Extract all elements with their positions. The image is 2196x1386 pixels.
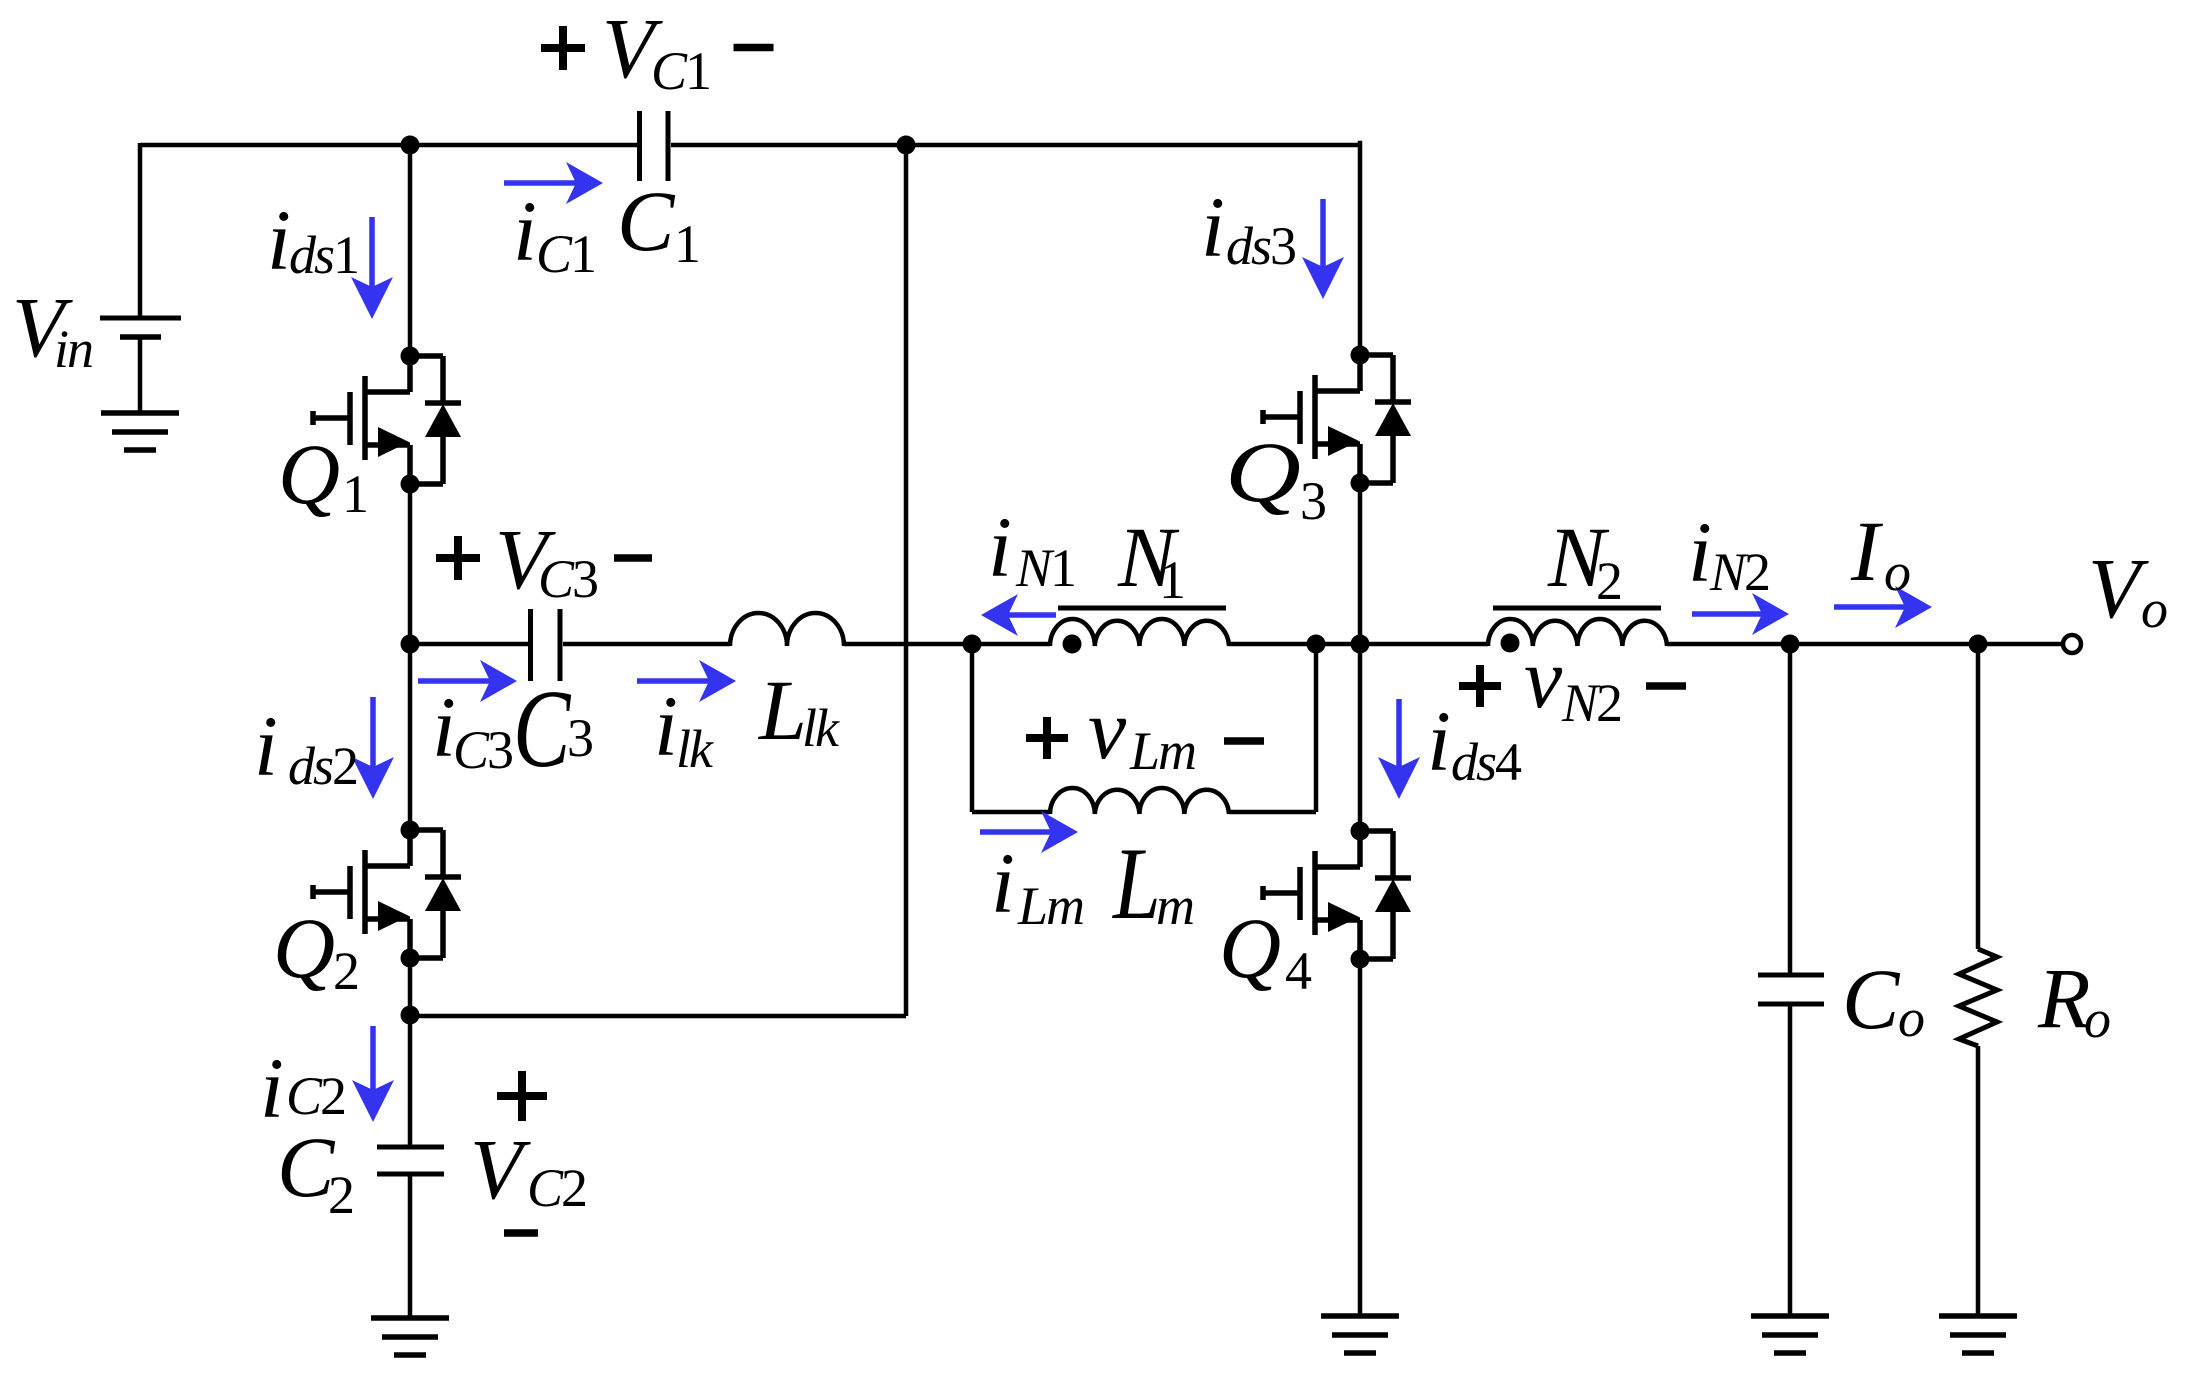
wire top rail left of C1 <box>140 143 637 148</box>
wire Lm bottom left <box>972 810 1050 815</box>
capacitor C3 <box>531 609 561 681</box>
label VC2 <box>470 1121 586 1218</box>
svg-text:o: o <box>2084 989 2110 1049</box>
wire N2 to output terminal <box>1667 642 2062 647</box>
current arrow iN2 <box>1692 593 1789 635</box>
wire bottom rail <box>410 1014 906 1019</box>
label iC3 <box>432 679 512 780</box>
label VC3 <box>495 511 597 609</box>
wire Lm right vertical <box>1314 644 1319 812</box>
current arrow iC1 <box>504 162 603 204</box>
node Q2 source rail <box>401 1006 420 1025</box>
svg-text:i: i <box>1688 504 1712 600</box>
label Q4 <box>1219 900 1312 1001</box>
label Co <box>1842 951 1924 1048</box>
label iN1 <box>988 499 1075 598</box>
node Ro top <box>1969 635 1988 654</box>
svg-text:C: C <box>617 173 676 269</box>
current arrow ids4 <box>1378 699 1420 799</box>
svg-text:m: m <box>1156 876 1193 936</box>
transformer core bar N1 <box>1058 606 1226 611</box>
label Q1 <box>278 426 367 524</box>
label minus of vN2 <box>1646 682 1686 690</box>
battery Vin <box>100 318 181 337</box>
label ilk <box>654 678 714 779</box>
svg-text:lk: lk <box>802 698 840 758</box>
wire C1 right leg <box>904 145 909 1016</box>
svg-text:C3: C3 <box>453 720 512 780</box>
svg-text:V: V <box>2088 540 2149 636</box>
svg-text:Lm: Lm <box>1129 721 1195 781</box>
svg-text:o: o <box>1898 988 1924 1048</box>
polarity dot N2 <box>1501 634 1520 653</box>
label Io <box>1850 503 1910 602</box>
resistor Ro <box>1959 949 1997 1046</box>
label C2 <box>277 1119 353 1225</box>
svg-text:2: 2 <box>333 941 358 1001</box>
svg-text:i: i <box>991 835 1015 931</box>
svg-text:ds4: ds4 <box>1451 732 1522 792</box>
polarity dot N1 <box>1063 635 1082 654</box>
wire N1 to right leg <box>1229 642 1360 647</box>
svg-text:i: i <box>1427 693 1451 789</box>
svg-text:C: C <box>513 666 572 790</box>
wire Co top <box>1788 644 1793 975</box>
terminal Vo <box>2063 635 2081 653</box>
node top right of C1 <box>897 136 916 155</box>
svg-text:4: 4 <box>1285 941 1312 1001</box>
current arrow ids1 <box>351 217 393 319</box>
label C3 <box>513 666 592 790</box>
label minus of VC2 <box>504 1229 538 1237</box>
svg-text:1: 1 <box>674 214 699 274</box>
svg-text:ds2: ds2 <box>288 736 357 796</box>
ground Ro <box>1939 1316 2017 1353</box>
label minus of VC3 <box>614 554 652 562</box>
svg-text:i: i <box>1201 179 1225 275</box>
svg-text:o: o <box>2141 579 2167 639</box>
svg-text:C3: C3 <box>538 549 597 609</box>
svg-text:v: v <box>1524 630 1563 726</box>
wire Q1 drain stem <box>408 145 413 356</box>
svg-text:ds1: ds1 <box>289 225 358 285</box>
label Q3 <box>1225 424 1325 531</box>
ground Q4 <box>1321 1316 1399 1353</box>
svg-text:Lm: Lm <box>1017 876 1083 936</box>
label Llk <box>757 662 840 758</box>
label Q2 <box>273 900 358 1001</box>
svg-text:N2: N2 <box>1709 542 1769 602</box>
wire Q4 source to ground <box>1358 959 1363 1316</box>
svg-text:o: o <box>1884 542 1910 602</box>
label N2 <box>1547 509 1621 611</box>
node Co top <box>1781 635 1800 654</box>
wire Co bottom <box>1788 1004 1793 1316</box>
label plus of vN2 <box>1459 665 1501 707</box>
wire mid row Llk to node <box>844 642 972 647</box>
svg-text:I: I <box>1850 503 1883 599</box>
node right leg mid <box>1351 635 1370 654</box>
label Vin <box>12 279 92 379</box>
svg-text:N2: N2 <box>1561 673 1621 733</box>
wire C2 to ground <box>408 1174 413 1318</box>
svg-text:Q: Q <box>1225 424 1301 520</box>
capacitor C2 <box>377 1147 444 1174</box>
current arrow ids3 <box>1302 199 1344 299</box>
transistor Q1 <box>313 347 461 494</box>
transistor Q3 <box>1263 346 1411 493</box>
label C1 <box>617 173 699 274</box>
label vLm <box>1088 681 1195 781</box>
label plus of vLm <box>1026 717 1068 759</box>
svg-text:i: i <box>254 698 278 794</box>
wire Q2 source down <box>408 958 413 1147</box>
svg-text:lk: lk <box>676 719 714 779</box>
svg-text:V: V <box>470 1121 531 1217</box>
current arrow ilk <box>637 660 736 702</box>
svg-text:C1: C1 <box>536 224 595 284</box>
node top left <box>401 136 420 155</box>
svg-text:1: 1 <box>342 464 367 524</box>
svg-text:i: i <box>267 192 291 288</box>
wire right leg top <box>1358 143 1360 355</box>
wire Q1 source to mid node <box>408 484 413 644</box>
transformer core bar N2 <box>1493 606 1661 611</box>
svg-text:Q: Q <box>273 900 335 996</box>
winding N1 <box>1050 619 1229 646</box>
wire Lm left vertical <box>970 644 975 812</box>
svg-text:C2: C2 <box>286 1066 345 1126</box>
wire Q3 source to Q4 drain <box>1358 483 1363 831</box>
label Ro <box>2037 950 2110 1049</box>
wire mid row to N1 <box>972 642 1050 647</box>
inductor Lm <box>1050 788 1229 814</box>
svg-text:i: i <box>513 183 537 279</box>
label ids4 <box>1427 693 1522 792</box>
wire right leg to N2 <box>1360 642 1488 647</box>
label VC1 <box>602 0 710 101</box>
label plus of VC3 <box>436 536 480 580</box>
label minus of vLm <box>1224 737 1264 745</box>
svg-text:3: 3 <box>1300 471 1325 531</box>
wire Vin bottom stem <box>138 337 143 413</box>
label Vo <box>2088 540 2167 639</box>
capacitor Co <box>1758 975 1824 1004</box>
svg-text:L: L <box>1111 826 1161 941</box>
svg-text:2: 2 <box>328 1165 353 1225</box>
current arrow iLm <box>980 811 1078 853</box>
svg-text:Q: Q <box>1219 900 1281 996</box>
ground input <box>101 413 179 450</box>
label iC1 <box>513 183 595 284</box>
svg-text:i: i <box>988 499 1012 595</box>
label plus of VC1 <box>541 26 585 70</box>
label iLm <box>991 835 1083 936</box>
svg-text:C: C <box>1842 951 1901 1047</box>
ground C2 <box>371 1318 449 1355</box>
node mid left <box>401 635 420 654</box>
label vN2 <box>1524 630 1621 733</box>
current arrow iC2 <box>352 1026 394 1122</box>
label Lm <box>1111 826 1193 941</box>
svg-text:3: 3 <box>567 708 592 768</box>
current arrow ids2 <box>352 697 394 799</box>
svg-text:C2: C2 <box>527 1158 586 1218</box>
label ids2 <box>254 698 357 796</box>
current arrow Io <box>1834 586 1932 628</box>
svg-text:R: R <box>2037 950 2091 1046</box>
label iN2 <box>1688 504 1769 602</box>
wire mid row C3 to Llk <box>563 642 730 647</box>
capacitor C1 <box>640 111 669 181</box>
wire mid row left <box>410 642 528 647</box>
label N1 <box>1117 509 1184 610</box>
svg-text:N1: N1 <box>1015 538 1075 598</box>
winding N2 <box>1488 619 1667 646</box>
svg-text:C1: C1 <box>651 41 710 101</box>
svg-text:L: L <box>757 662 807 758</box>
transistor Q4 <box>1263 822 1411 969</box>
wire top rail right of C1 <box>671 143 1360 148</box>
label minus of VC1 <box>734 44 774 52</box>
current arrow iC3 <box>418 660 517 702</box>
svg-text:2: 2 <box>1596 551 1621 611</box>
label ids1 <box>267 192 358 288</box>
svg-text:in: in <box>54 319 92 379</box>
wire Vin top stem <box>138 143 143 318</box>
wire Ro top <box>1976 644 1981 949</box>
label plus of VC2 <box>497 1071 547 1121</box>
wire Lm bottom right <box>1229 810 1316 815</box>
inductor Llk <box>730 613 844 646</box>
node transformer right <box>1307 635 1326 654</box>
svg-text:ds3: ds3 <box>1226 216 1295 276</box>
current arrow iN1 <box>981 594 1056 636</box>
wire mid node to Q2 drain <box>408 644 413 830</box>
node transformer left <box>963 635 982 654</box>
ground Co <box>1751 1316 1829 1353</box>
svg-text:v: v <box>1088 681 1127 777</box>
svg-text:Q: Q <box>278 426 340 522</box>
transistor Q2 <box>313 821 461 968</box>
label iC2 <box>260 1040 345 1136</box>
label ids3 <box>1201 179 1295 276</box>
svg-text:i: i <box>654 678 678 774</box>
svg-text:1: 1 <box>1159 550 1184 610</box>
wire Ro bottom <box>1976 1046 1981 1316</box>
